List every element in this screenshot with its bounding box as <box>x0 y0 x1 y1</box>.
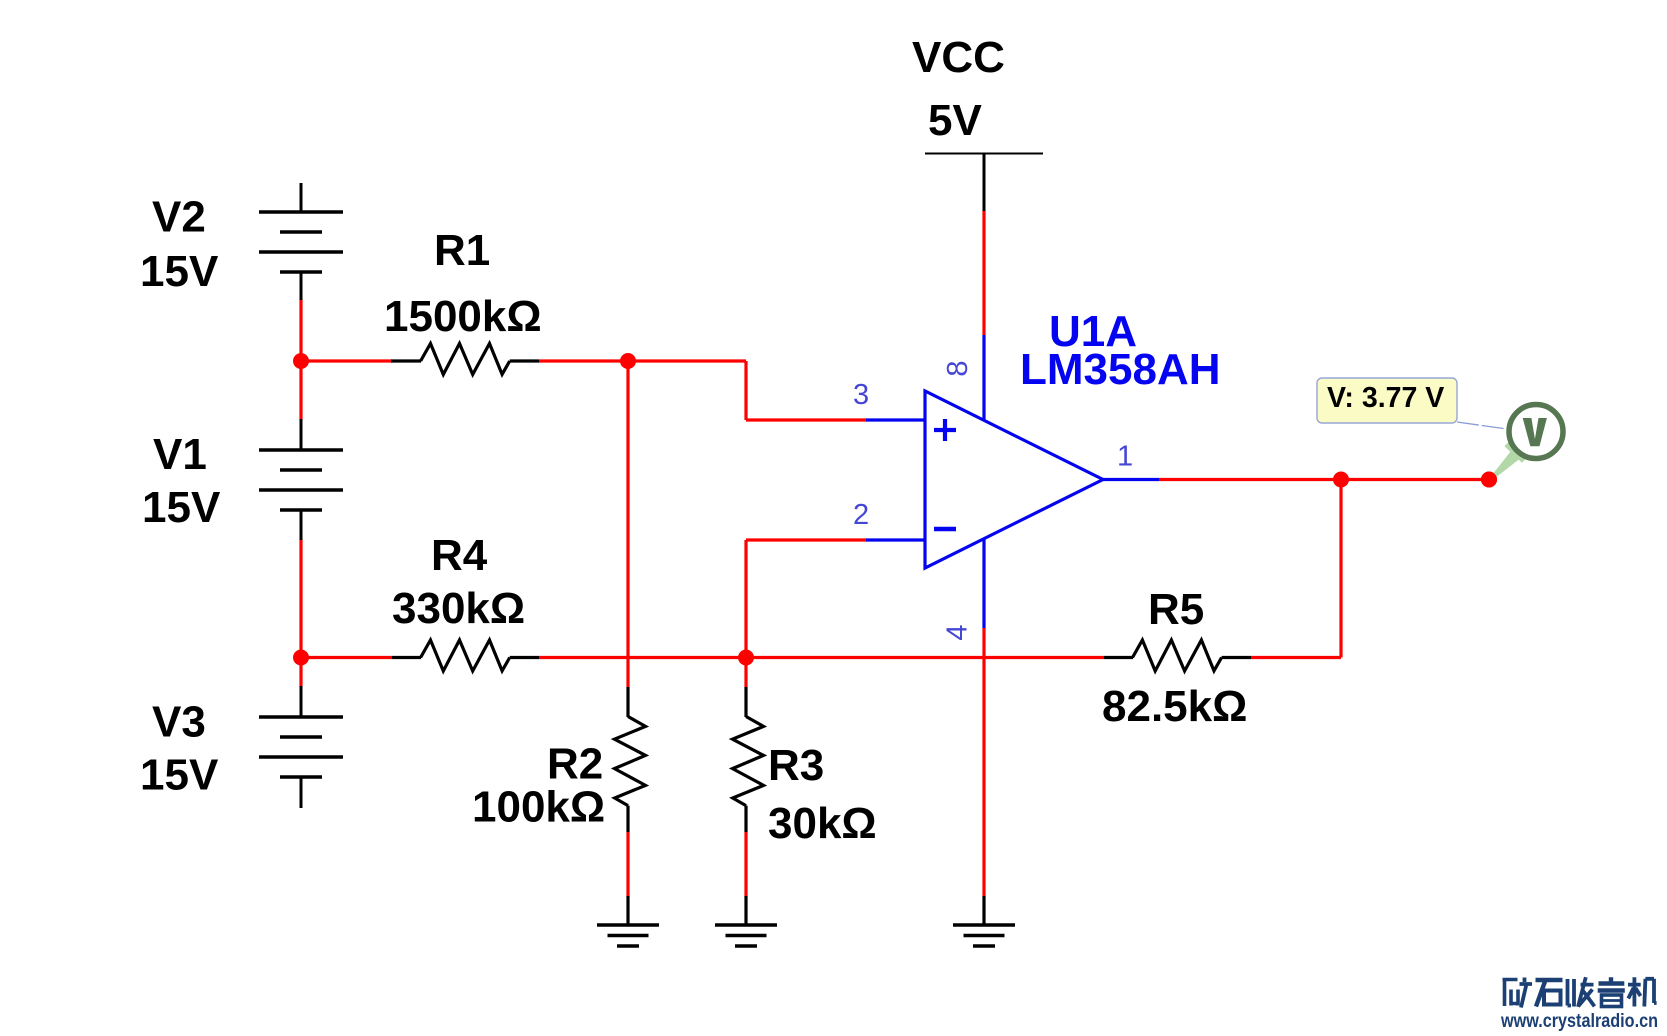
wire red R3 bottom to ground stub <box>744 832 747 897</box>
node output terminal dot <box>1481 472 1497 488</box>
svg-text:V1: V1 <box>153 430 207 479</box>
svg-text:330kΩ: 330kΩ <box>392 584 525 633</box>
svg-text:LM358AH: LM358AH <box>1020 345 1221 394</box>
svg-text:www.crystalradio.cn: www.crystalradio.cn <box>1500 1011 1658 1032</box>
svg-text:8: 8 <box>942 360 974 376</box>
svg-text:V2: V2 <box>152 193 206 242</box>
wire red pin3 horizontal <box>746 418 867 421</box>
battery V3 <box>259 686 343 808</box>
op-amp U1A triangle <box>925 391 1103 568</box>
svg-text:2: 2 <box>853 499 869 531</box>
wire red node B to V3 top <box>299 658 302 688</box>
wire red R4 right lead to R5 left lead <box>539 656 1104 659</box>
wire red pin3 corner vertical <box>744 361 747 420</box>
wire red pin4 vertical to ground <box>982 628 985 897</box>
probe circle V <box>1509 405 1563 459</box>
svg-text:R1: R1 <box>434 226 490 275</box>
svg-text:15V: 15V <box>140 247 219 296</box>
svg-text:1500kΩ: 1500kΩ <box>384 292 542 341</box>
node junction dot R1 output <box>620 353 636 369</box>
svg-text:V3: V3 <box>152 698 206 747</box>
ground under op-amp pin 4 <box>953 896 1015 946</box>
svg-text:15V: 15V <box>140 751 219 800</box>
resistor R3 <box>733 687 764 832</box>
node junction dot feedback <box>1333 472 1349 488</box>
svg-text:R3: R3 <box>768 741 824 790</box>
ground under R2 <box>597 896 659 946</box>
op-amp minus input symbol <box>934 527 956 532</box>
svg-text:100kΩ: 100kΩ <box>472 783 605 832</box>
probe callout line <box>1457 422 1507 429</box>
resistor R4 <box>392 640 539 671</box>
probe tooltip box <box>1317 378 1457 423</box>
battery V2 <box>259 183 343 300</box>
svg-text:3: 3 <box>853 379 869 411</box>
svg-text:15V: 15V <box>142 483 221 532</box>
wire red pin2 horizontal <box>746 538 867 541</box>
svg-text:1: 1 <box>1117 441 1133 473</box>
battery V1 <box>259 419 343 540</box>
resistor R5 <box>1104 640 1251 671</box>
wire red R5 right lead to corner <box>1251 656 1341 659</box>
op-amp plus input symbol <box>934 419 956 441</box>
probe letter V <box>1523 418 1547 446</box>
probe needle <box>1489 447 1524 481</box>
svg-text:R5: R5 <box>1148 585 1204 634</box>
wire red node A to V1 top <box>299 361 302 420</box>
resistor R2 <box>615 687 646 832</box>
svg-text:V: 3.77 V: V: 3.77 V <box>1327 382 1444 414</box>
probe needle hilt <box>1506 444 1524 461</box>
node B junction dot <box>293 650 309 666</box>
svg-text:5V: 5V <box>928 96 982 145</box>
svg-text:30kΩ: 30kΩ <box>768 799 877 848</box>
wire red R2 bottom to ground stub <box>626 832 629 897</box>
probe tip red dot <box>1481 472 1497 488</box>
wire red V2 bottom to node A <box>299 299 302 361</box>
wire red node A to R1 left lead <box>301 359 392 362</box>
op-amp U1 pin 4 blue lead <box>982 538 985 628</box>
wire red node B to R4 left lead <box>301 656 392 659</box>
wire red VCC vertical upper <box>982 211 985 335</box>
svg-text:R2: R2 <box>547 740 603 789</box>
wire red vertical bus through R2 <box>626 361 629 687</box>
svg-text:82.5kΩ: 82.5kΩ <box>1102 682 1247 731</box>
svg-text:4: 4 <box>942 624 974 640</box>
op-amp U1 pin 1 blue lead <box>1103 478 1159 481</box>
op-amp U1 pin 3 blue lead <box>866 418 925 421</box>
wire red R1 right lead to pin3 corner <box>539 359 746 362</box>
wire red pin2 vertical to node C <box>744 540 747 687</box>
wire red feedback vertical <box>1339 480 1342 658</box>
svg-text:VCC: VCC <box>912 33 1005 82</box>
VCC power rail <box>925 153 1043 155</box>
wire red output <box>1159 478 1489 481</box>
svg-text:R4: R4 <box>431 531 488 580</box>
watermark chinese logo <box>1503 977 1657 1007</box>
node A junction dot <box>293 353 309 369</box>
ground under R3 <box>715 896 777 946</box>
node C junction dot <box>738 650 754 666</box>
op-amp U1 pin 2 blue lead <box>866 538 925 541</box>
resistor R1 <box>391 344 539 375</box>
wire black VCC stub <box>983 154 986 212</box>
wire red V1 bottom to node B <box>299 539 302 658</box>
op-amp U1 pin 8 blue lead <box>982 335 985 421</box>
